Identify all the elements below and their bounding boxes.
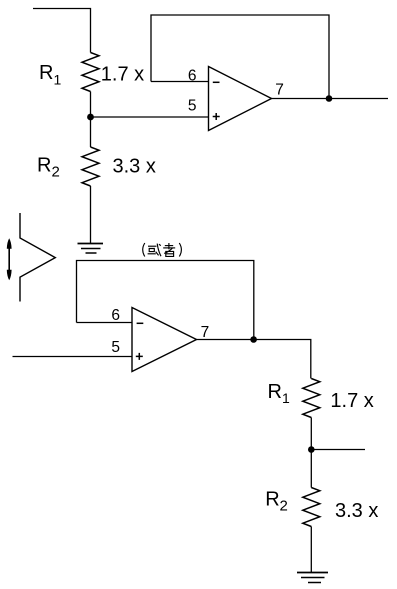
wire: U1 output: [272, 98, 389, 100]
svg-text:2: 2: [52, 164, 60, 181]
svg-text:6: 6: [188, 68, 197, 85]
者: [165, 245, 173, 247]
wire: U2 feedback loop (output to pin 6): [77, 261, 254, 340]
svg-text:R: R: [37, 155, 51, 177]
（: [143, 243, 145, 257]
wire: U2 pin 5 input from left edge: [13, 356, 133, 358]
resistor R1 (top divider): [82, 53, 99, 92]
wire: U2 pin 6 input: [77, 322, 133, 324]
或: [148, 245, 157, 247]
wire: bottom R1 to R2 through tap: [310, 418, 312, 488]
svg-text:1: 1: [54, 72, 62, 88]
wire: divider tap to op-amp U1 pin 5: [91, 116, 209, 118]
input continuation chevron symbol: [20, 213, 55, 302]
resistor R2 (bottom divider): [303, 488, 320, 527]
svg-text:1: 1: [282, 390, 290, 406]
svg-text:1.7 x: 1.7 x: [330, 390, 373, 412]
node: U2 output junction: [250, 336, 257, 343]
svg-text:7: 7: [275, 82, 284, 99]
resistor R1 (bottom divider): [303, 379, 320, 418]
svg-text:2: 2: [280, 498, 288, 515]
wire: U2 output to bottom divider: [197, 340, 311, 379]
ground (top): [78, 244, 104, 254]
node: top divider tap junction: [87, 114, 94, 121]
wire: bottom divider tap output: [311, 449, 365, 451]
svg-text:3.3 x: 3.3 x: [113, 156, 156, 178]
svg-text:5: 5: [111, 339, 120, 356]
op-amp U1: [209, 67, 272, 131]
ground (bottom): [297, 573, 328, 583]
label （或者） hand-drawn glyphs: [143, 243, 182, 257]
node: bottom divider tap junction: [308, 446, 315, 453]
wire: top-left supply stub into R1: [33, 9, 91, 53]
wire: R1 bottom through junction to R2 top: [90, 92, 92, 148]
op-amp U2: [132, 308, 197, 372]
svg-text:R: R: [265, 489, 279, 511]
wire: U1 feedback loop (output to pin 6): [151, 15, 329, 99]
svg-text:R: R: [39, 62, 53, 84]
svg-text:6: 6: [111, 307, 120, 324]
adjustment double arrow: [7, 238, 12, 280]
）: [179, 243, 181, 257]
wire: U1 pin 6 input: [151, 81, 209, 83]
svg-text:1.7 x: 1.7 x: [101, 64, 144, 86]
resistor R2 (top divider): [82, 147, 99, 186]
svg-text:5: 5: [188, 98, 197, 115]
wire: bottom R2 to ground: [310, 527, 312, 573]
svg-text:3.3 x: 3.3 x: [335, 500, 378, 522]
node: U1 output junction: [326, 95, 333, 102]
svg-text:7: 7: [201, 324, 210, 341]
svg-text:R: R: [268, 381, 282, 403]
wire: R2 bottom to ground: [90, 186, 92, 244]
